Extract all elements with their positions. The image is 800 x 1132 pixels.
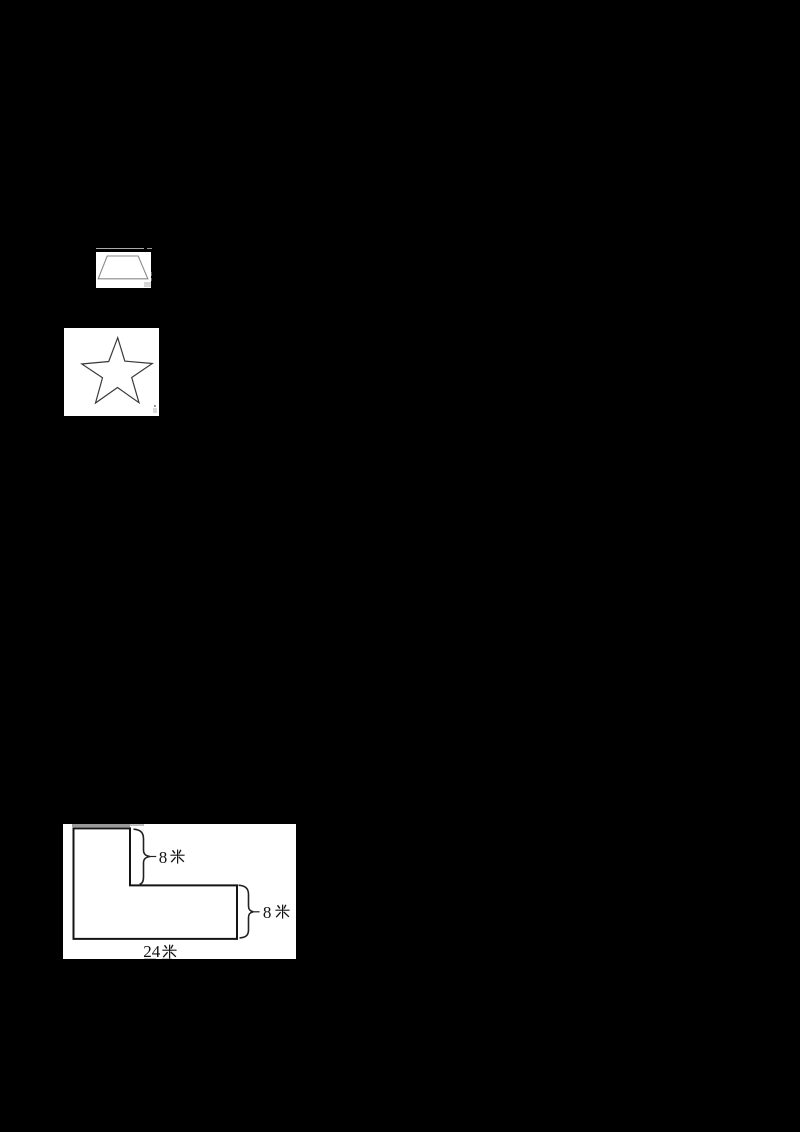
right curly brace (8 m vertical span) (239, 885, 254, 938)
label 8 (right) (263, 904, 293, 922)
label 8 (top) (159, 849, 189, 867)
tiny dark mark right edge (151, 272, 152, 276)
trapezoid outline (96, 252, 152, 289)
米 glyph (bottom) drawn (162, 944, 177, 959)
top curly brace (8 m vertical span) (134, 829, 150, 884)
star outline (64, 328, 159, 416)
trapezoid figure block (96, 252, 152, 289)
米 glyph (right) drawn (275, 904, 290, 919)
L-shape outline (74, 828, 238, 939)
leader dash from right brace tip (253, 910, 260, 912)
leader dash from top brace tip (150, 855, 157, 857)
label 24 (bottom) (143, 943, 183, 961)
small gray square bottom-right of trapezoid block (144, 282, 151, 287)
star figure block (64, 328, 159, 416)
faint clipped next-line smudges under 24mi (144, 958, 156, 959)
gray bar above L top edge (72, 824, 130, 827)
米 glyph (top) drawn (170, 849, 185, 864)
L-shape figure block (63, 824, 296, 960)
gray rule above trapezoid block (96, 248, 145, 249)
small gray mark bottom-right of star block (153, 408, 158, 413)
